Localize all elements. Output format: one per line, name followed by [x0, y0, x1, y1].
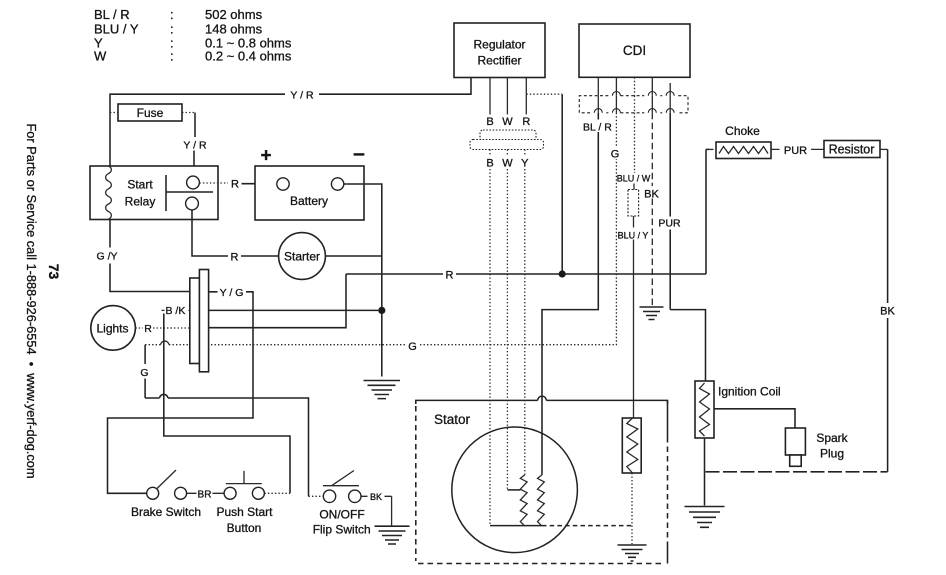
wire HT lead to spark plug — [714, 409, 795, 428]
net label R (bus) — [443, 267, 456, 282]
svg-text:BLU / Y: BLU / Y — [94, 22, 139, 37]
value label legend: resistance table — [94, 7, 292, 64]
lamp: Lights — [91, 306, 136, 351]
wire battery - to junction column — [344, 184, 382, 377]
svg-text:R: R — [144, 323, 152, 335]
svg-text:B: B — [486, 116, 493, 128]
svg-text:+: + — [260, 146, 271, 167]
svg-text:R: R — [231, 179, 239, 191]
connector J2 (CDI plug, dashed with bumps) — [579, 92, 688, 113]
wire PUR link choke-resistor — [771, 148, 824, 150]
wire stator bottom bus — [490, 525, 542, 527]
svg-text:BR: BR — [198, 490, 212, 501]
wire R: key switch to R bus riser — [209, 274, 346, 328]
svg-text:Resistor: Resistor — [829, 143, 875, 157]
relay coil (wavy) — [106, 166, 112, 219]
svg-text::: : — [170, 7, 174, 22]
stator box (dashed enclosure) — [416, 396, 668, 563]
pin labels B W R (above connector) — [486, 116, 530, 128]
svg-text:Y / R: Y / R — [290, 90, 314, 102]
wire relay to R label (dotted) — [199, 182, 228, 184]
svg-text:148 ohms: 148 ohms — [205, 22, 263, 37]
node junction (battery - / key switch / ground) — [378, 307, 385, 314]
wire G (CDI, dotted down to G bus) — [615, 113, 617, 346]
svg-text:Brake Switch: Brake Switch — [131, 505, 201, 519]
svg-text:Y / G: Y / G — [220, 287, 244, 299]
ground (main, below junction) — [364, 381, 401, 399]
CDI legs — [598, 77, 670, 95]
svg-text:CDI: CDI — [623, 43, 646, 58]
wire BK (CDI to ground, dash-dot) — [651, 113, 653, 307]
svg-text:BL / R: BL / R — [583, 122, 612, 134]
wire Y/R: regulator to fuse column — [110, 78, 471, 167]
svg-text:BK: BK — [370, 492, 382, 502]
node junction (R bus / regulator R) — [559, 270, 566, 277]
fuse F1 — [118, 104, 182, 121]
relay terminal (output) — [186, 197, 199, 210]
svg-text:Push Start: Push Start — [216, 505, 273, 519]
svg-text:Starter: Starter — [284, 250, 320, 264]
wire BL/R (CDI to stator coil 2) — [542, 113, 598, 475]
svg-text::: : — [170, 22, 174, 37]
svg-text:G: G — [408, 341, 417, 353]
svg-text:W: W — [502, 158, 513, 170]
svg-text:Flip Switch: Flip Switch — [313, 523, 371, 537]
net label G (CDI leg) — [610, 148, 621, 161]
wire relay output to starter — [192, 210, 279, 256]
wire PUR (CDI to ignition coil) — [670, 113, 705, 381]
wire R to battery + — [242, 183, 277, 185]
switch S3: ON/OFF Flip Switch — [313, 471, 371, 537]
svg-text:73: 73 — [46, 264, 62, 280]
wire BLU/W (dotted, CDI to resistor R2) — [634, 113, 636, 173]
svg-text:Battery: Battery — [290, 194, 328, 208]
svg-text:Ignition Coil: Ignition Coil — [718, 385, 781, 399]
svg-text:G: G — [611, 149, 620, 161]
svg-text:G: G — [140, 367, 148, 379]
net label BL/R — [582, 120, 612, 134]
wire G bus (dotted, key switch to CDI G) — [145, 341, 616, 345]
svg-text:BLU / W: BLU / W — [617, 174, 651, 184]
wire G/Y: relay coil to key switch — [110, 220, 190, 292]
svg-text:Choke: Choke — [725, 124, 760, 138]
wire stub to resistor R2 — [633, 184, 635, 190]
wire W (dashed, to stator) — [506, 150, 508, 490]
svg-text:BK: BK — [644, 189, 659, 201]
regulator rectifier legs B W R — [490, 78, 562, 115]
svg-text:R: R — [522, 116, 530, 128]
svg-text:Button: Button — [227, 521, 262, 535]
connector pin wires through plug — [598, 96, 670, 113]
wire starter to battery - column — [325, 255, 381, 257]
svg-text:Y / R: Y / R — [183, 140, 207, 152]
svg-text:W: W — [502, 116, 513, 128]
battery BT1 — [255, 166, 364, 220]
svg-text:Relay: Relay — [125, 195, 156, 209]
svg-text:BL / R: BL / R — [94, 7, 130, 22]
connector J1 (regulator plug, dashed) — [470, 130, 544, 150]
hop (G wire over B/K) — [160, 394, 169, 398]
regulator rectifier U1 — [454, 23, 545, 78]
svg-text:BLU / Y: BLU / Y — [618, 231, 649, 241]
switch S2: Push Start Button — [216, 471, 273, 535]
wire B/K drop to push start — [164, 314, 290, 494]
wire lighting coil to ground (dotted) — [631, 473, 633, 544]
wire on/off feed (dotted) — [309, 495, 324, 497]
wire B/K: key switch to junction/ground — [209, 309, 379, 311]
resistor R2 (inline, dashed outline) — [628, 190, 639, 217]
resistor R1 — [824, 141, 880, 158]
svg-text:Regulator: Regulator — [473, 38, 525, 52]
transformer T1: Ignition Coil — [695, 381, 781, 438]
wire BR link — [187, 492, 225, 494]
wire fuse stubs (dotted) — [110, 112, 195, 114]
svg-text:Stator: Stator — [434, 412, 471, 427]
ground (ignition coil) — [685, 507, 725, 528]
wire BLU/Y (resistor to lighting coil) — [633, 216, 635, 418]
wire push start to B/K drop (dotted) — [264, 492, 290, 494]
svg-text:Start: Start — [127, 178, 153, 192]
svg-text:Spark: Spark — [816, 431, 848, 445]
inductor L4: Choke — [716, 124, 771, 159]
wire BK link to ground — [361, 496, 391, 526]
svg-text:B: B — [486, 158, 493, 170]
starter M1 — [279, 233, 326, 280]
wire B (dashed, to stator) — [489, 150, 491, 526]
svg-text::: : — [170, 49, 174, 64]
svg-text:502 ohms: 502 ohms — [205, 7, 263, 22]
wire R branch to junction — [561, 94, 563, 274]
svg-text:Fuse: Fuse — [137, 106, 164, 120]
svg-text:Plug: Plug — [820, 447, 844, 461]
svg-text:BK: BK — [880, 306, 895, 318]
wire R bus riser to choke — [706, 149, 709, 274]
wire R lights to key switch (dotted) — [135, 327, 190, 329]
svg-text:G /Y: G /Y — [96, 251, 117, 263]
relay terminal (coil side) — [187, 176, 200, 189]
svg-text:PUR: PUR — [784, 145, 807, 157]
ground (flip switch) — [375, 526, 410, 544]
svg-text:Lights: Lights — [96, 322, 128, 336]
connector (key switch plug) — [190, 270, 209, 372]
net label R (starter feed) — [228, 249, 241, 264]
wire W tap into coil 1 — [507, 489, 520, 491]
svg-text:ON/OFF: ON/OFF — [319, 508, 364, 522]
ground (lighting coil) — [618, 545, 647, 561]
svg-text:R: R — [231, 252, 239, 264]
svg-text:For Parts or Service call 1-88: For Parts or Service call 1-888-926-6554… — [24, 123, 39, 478]
spark plug P1 — [785, 428, 848, 466]
stator charge coil L1 — [520, 475, 527, 526]
svg-text:PUR: PUR — [658, 218, 681, 230]
switch S1: Brake Switch — [131, 470, 201, 519]
svg-text:Rectifier: Rectifier — [477, 54, 521, 68]
wire BK: resistor to ignition coil ground leg — [880, 148, 888, 150]
wire R bus (main) — [346, 273, 706, 275]
wire fuse to relay coil pin — [194, 113, 195, 177]
wire Y (dashed, to stator coil) — [524, 150, 526, 475]
relay contact bars — [166, 175, 213, 211]
stator lighting coil L3 (boxed) — [622, 418, 641, 473]
svg-text:Y: Y — [521, 158, 529, 170]
stator flywheel circle — [452, 427, 578, 553]
relay K1: Start Relay — [90, 166, 218, 220]
wire G left drop — [145, 345, 308, 497]
pin labels B W Y (below connector) — [486, 158, 529, 170]
svg-text:0.2 ~ 0.4 ohms: 0.2 ~ 0.4 ohms — [205, 49, 292, 64]
svg-text:R: R — [446, 270, 454, 282]
svg-text:W: W — [94, 49, 107, 64]
ground (CDI BK) — [640, 307, 664, 320]
stator charge coil L2 — [538, 475, 545, 526]
svg-text:–: – — [353, 142, 365, 165]
wire ignition coil to ground — [704, 438, 706, 506]
svg-text:B /K: B /K — [166, 305, 186, 317]
wire Y/G: key switch to brake switch — [108, 292, 254, 494]
CDI box U2 — [579, 24, 690, 77]
